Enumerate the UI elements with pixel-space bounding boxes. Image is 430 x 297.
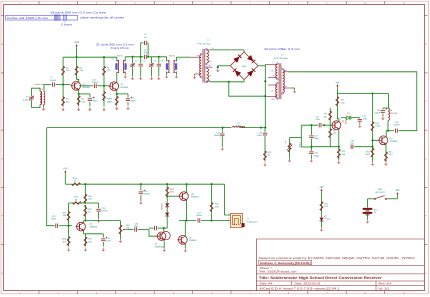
ground under T4 left	[166, 75, 168, 77]
wire T3 left top to rail	[116, 57, 118, 61]
diode D upper-left	[233, 56, 240, 63]
wire R1 top lead	[62, 57, 64, 65]
svg-text:33k: 33k	[63, 215, 66, 217]
wire mixer bottom	[243, 80, 245, 82]
svg-text:2N3904: 2N3904	[90, 226, 98, 228]
ground under C12	[359, 124, 361, 126]
wire Q1 emitter	[78, 90, 80, 94]
ground under L3	[43, 105, 45, 107]
svg-text:4: 4	[228, 218, 229, 220]
T2 left pins	[265, 63, 277, 65]
ground under C23	[98, 219, 100, 221]
svg-text:T3: T3	[111, 59, 113, 61]
resistor R24	[68, 226, 70, 236]
resistor R8 collector load	[336, 94, 338, 109]
wire divider to base	[68, 221, 70, 226]
ground under BT1	[367, 220, 369, 222]
svg-text:1: 1	[231, 64, 232, 66]
resistor R13 emitter	[338, 147, 340, 161]
ground under R8	[103, 107, 105, 109]
svg-text:100nF: 100nF	[50, 80, 57, 82]
wire rail corner to jack	[225, 184, 230, 215]
capacitor C10 coupling	[79, 80, 82, 82]
wire L6 down to buffer output	[387, 120, 389, 130]
svg-text:Size: A4: Size: A4	[260, 283, 274, 286]
ground under L5	[289, 154, 291, 159]
wire T1 to mixer top	[211, 49, 245, 51]
resistor R5	[78, 94, 80, 107]
capacitor C14 supply	[383, 107, 389, 109]
svg-text:100u: 100u	[131, 100, 137, 102]
svg-text:2: 2	[197, 72, 198, 74]
resistor R8 base divider	[103, 86, 105, 107]
svg-text:4a: 4a	[285, 86, 287, 88]
transistor Q3 oscillator	[332, 121, 341, 130]
junction Q2 base	[103, 85, 105, 87]
transistor Q9 PNP	[178, 235, 187, 244]
capacitor C11	[127, 94, 129, 98]
diode D upper-right	[247, 55, 254, 62]
svg-text:2 turns: 2 turns	[61, 22, 73, 26]
wire audio line	[47, 127, 231, 129]
svg-text:ferrite rod: ferrite rod	[35, 83, 45, 86]
wire mixer IF down	[264, 96, 266, 127]
svg-text:100nF: 100nF	[92, 82, 99, 84]
resistor R27	[85, 234, 87, 236]
svg-text:6b: 6b	[209, 65, 211, 67]
resistor R25	[84, 206, 86, 218]
wire AF rail	[81, 183, 225, 185]
ground under RV1	[120, 237, 122, 239]
svg-text:5-65p: 5-65p	[23, 99, 29, 101]
headphone jack J1	[230, 213, 242, 227]
svg-text:8 turns 0.5 mm: 8 turns 0.5 mm	[111, 46, 129, 50]
svg-text:L5: L5	[284, 142, 286, 144]
wire emitter tap to C17/C18 junction	[311, 146, 338, 148]
ground under T3	[124, 75, 126, 77]
junction R18/R25	[84, 205, 86, 207]
capacitor C1 top coupling loop	[141, 43, 144, 57]
wire buffer base node	[372, 140, 374, 146]
svg-text:+9V: +9V	[63, 168, 68, 170]
svg-text:0b: 0b	[209, 80, 211, 82]
ground under C6	[158, 76, 160, 78]
diode D lower-left	[235, 70, 242, 77]
svg-text:+9V: +9V	[319, 187, 324, 189]
svg-text:5.0uH: 5.0uH	[298, 143, 300, 148]
ground under C11	[127, 106, 129, 108]
ground under T4 right	[175, 75, 177, 77]
ground under R15	[385, 162, 387, 164]
svg-text:2: 2	[242, 82, 243, 84]
wire Q9 emitter ground	[184, 244, 186, 249]
svg-text:Id: 1/1: Id: 1/1	[379, 287, 391, 290]
svg-text:13k: 13k	[333, 133, 336, 135]
varactor D1	[341, 117, 346, 119]
wire L3 tap to C7	[43, 85, 45, 92]
junction on rail	[76, 56, 78, 58]
capacitor C6	[158, 57, 160, 63]
transistor Q1	[72, 81, 81, 90]
capacitor C13 shunt	[221, 128, 223, 133]
capacitor C8	[89, 94, 91, 98]
transistor Q2	[110, 82, 119, 91]
svg-text:2N3904: 2N3904	[120, 87, 128, 89]
wire T1 bottom to mixer loop	[211, 81, 245, 83]
wire audio to AF amplifier	[47, 128, 55, 226]
wire VFO rail	[337, 93, 388, 95]
junction Q8 base	[166, 194, 168, 197]
svg-text:0a: 0a	[285, 70, 287, 72]
diode D lower-right	[247, 70, 254, 77]
capacitor C25 coupling	[127, 229, 134, 231]
wire tank to base	[290, 137, 302, 139]
svg-text:+9V: +9V	[335, 82, 340, 84]
ferrite rod winding symbol L3 sketch	[54, 14, 56, 20]
resistor R17	[166, 184, 168, 188]
resistor R2	[76, 57, 78, 65]
svg-text:D1: D1	[347, 113, 349, 115]
ground under R11	[372, 162, 374, 164]
power +9V switch	[396, 195, 398, 198]
svg-text:T4: T4	[177, 59, 179, 61]
title block text: author	[259, 260, 312, 264]
VFO tank: variable inductor L5	[289, 138, 291, 141]
wire mixer loop to T2	[229, 82, 265, 96]
ground under R5	[78, 107, 80, 109]
ground under C4	[140, 76, 142, 78]
svg-text:1N4148: 1N4148	[160, 203, 162, 209]
svg-text:2: 2	[228, 223, 229, 225]
resistor R22	[68, 203, 70, 211]
ground under R7	[116, 106, 118, 108]
capacitor C15 feedback	[318, 123, 320, 127]
ground T2 right lower	[292, 87, 295, 89]
wire Q5 collector to volume pot	[85, 220, 120, 222]
capacitor C16 output coupling	[395, 129, 397, 133]
ground under R27	[85, 248, 87, 250]
wire battery to ground	[367, 214, 369, 220]
svg-text:SW_SPST: SW_SPST	[375, 192, 385, 194]
svg-text:10n: 10n	[350, 143, 353, 145]
svg-text:File: SSDCR.kicad_sch: File: SSDCR.kicad_sch	[260, 271, 298, 274]
junction Q5 base	[68, 225, 70, 227]
wire +12V rail	[63, 56, 117, 58]
svg-text:headphones: headphones	[247, 221, 258, 223]
svg-text:ferrite rod 1000 x 8 mm: ferrite rod 1000 x 8 mm	[7, 16, 48, 20]
ground under C24	[102, 248, 104, 250]
wire T1 mid pin ground	[217, 66, 219, 68]
wire T2 to VFO buffer (long right wire)	[288, 72, 417, 131]
svg-text:D3: D3	[327, 219, 329, 221]
wire Q4 emitter	[385, 144, 387, 151]
resistor R23 pullup	[211, 184, 213, 202]
svg-text:T37-6: T37-6	[117, 55, 123, 57]
svg-text:10 turns trifilar, 0.3 mm: 10 turns trifilar, 0.3 mm	[264, 47, 300, 51]
wire mixer left to ground node	[218, 65, 231, 67]
capacitor C14 shunt	[264, 128, 266, 132]
ground under Q7	[163, 248, 165, 250]
wire feedback/input net	[149, 230, 157, 237]
svg-text:100nF: 100nF	[214, 135, 221, 137]
ground under R24	[68, 248, 70, 250]
svg-text:470uF: 470uF	[144, 194, 151, 196]
transistor Q4 buffer	[379, 136, 388, 145]
inductor L6 choke	[388, 108, 390, 120]
trimmer capacitor C5	[151, 57, 153, 63]
wire Q8 collector to rail	[186, 184, 188, 192]
svg-text:15k: 15k	[324, 116, 327, 118]
svg-text:FT37-43: FT37-43	[390, 113, 397, 115]
svg-text:+12V: +12V	[74, 42, 80, 44]
capacitor C4	[140, 57, 142, 63]
capacitor C17 divider	[310, 125, 312, 135]
svg-text:47uF: 47uF	[106, 241, 112, 243]
junctions AF rail	[84, 183, 86, 185]
capacitor C23 decoupling	[85, 202, 98, 204]
T2 right pins	[283, 71, 288, 73]
svg-text:Rev: 8.4: Rev: 8.4	[379, 283, 393, 286]
resistor R10 bias upper	[372, 94, 374, 121]
capacitor C19 coupling to buffer	[339, 146, 350, 148]
svg-text:FT37-43 trifilar: FT37-43 trifilar	[274, 57, 288, 60]
LED D3	[321, 212, 323, 218]
svg-text:place windings far off center: place windings far off center	[81, 16, 125, 20]
wire T2 input vertical	[264, 64, 266, 96]
wire rail end down	[388, 94, 390, 108]
T1 right pins	[207, 49, 211, 51]
wire R8 to Q3	[337, 109, 339, 122]
ground T1 mid	[217, 68, 219, 70]
svg-text:NC2: NC2	[272, 99, 275, 101]
wire Q8 emitter to output node	[186, 200, 188, 221]
resistor R21 LED	[321, 201, 323, 212]
svg-text:100n: 100n	[257, 135, 263, 137]
capacitor C24 bypass	[102, 234, 104, 238]
wire pair collector	[163, 228, 165, 232]
resistor R12 shunt	[264, 150, 266, 162]
svg-text:680p: 680p	[314, 138, 320, 140]
trimmer capacitor C3	[132, 57, 134, 63]
ground under R12	[264, 163, 266, 165]
svg-text:7b: 7b	[273, 75, 275, 77]
title block	[256, 239, 424, 291]
wire Q5 emitter	[83, 230, 85, 233]
diode D3 bias	[166, 207, 168, 213]
transistor Q8 driver	[180, 192, 189, 201]
resistor R11 base lower bias	[329, 125, 331, 141]
wire Q3 base line	[322, 124, 331, 126]
variable capacitor C9	[31, 91, 33, 97]
svg-text:3: 3	[257, 64, 258, 66]
svg-text:C14: C14	[377, 110, 380, 112]
transistors Q6 Q7 output pair	[157, 232, 165, 240]
svg-text:100nF: 100nF	[393, 125, 400, 127]
resistor R4	[62, 85, 64, 96]
svg-text:2N3904A: 2N3904A	[155, 245, 165, 248]
svg-text:100u: 100u	[93, 100, 99, 102]
svg-text:100uF: 100uF	[196, 215, 203, 217]
wire output line	[179, 220, 196, 222]
ground under Q9	[184, 248, 186, 250]
resistor R6	[103, 57, 105, 65]
wire Q2 collector to T3	[116, 72, 118, 82]
svg-text:680p: 680p	[314, 155, 320, 157]
wire Q9 collector to output	[184, 221, 186, 236]
wire R2 to Q1 collector	[77, 76, 79, 82]
wire L3 bottom loop	[32, 105, 41, 108]
capacitor C27 output coupling	[197, 218, 199, 222]
resistor R18	[84, 184, 86, 193]
svg-text:FT37-43 trifilar: FT37-43 trifilar	[197, 42, 210, 45]
svg-text:Date: 2023-03-01: Date: 2023-03-01	[295, 283, 322, 286]
junction Q1 base	[62, 84, 64, 86]
svg-text:based on previous work by KY4A: based on previous work by KY4ANS, N2CQR,…	[259, 256, 415, 260]
svg-text:1a: 1a	[197, 55, 199, 57]
svg-text:+9V: +9V	[395, 190, 400, 192]
ground under C3	[132, 76, 134, 78]
wire T3 pins	[124, 57, 126, 62]
ground under C26	[140, 201, 142, 203]
ground under C18	[310, 159, 312, 161]
svg-text:100nF: 100nF	[101, 211, 108, 213]
diode D2 bias	[166, 196, 168, 203]
wire Q2 emitter	[116, 90, 118, 94]
resistor R15 emitter	[385, 151, 387, 162]
transistor Q5	[77, 222, 86, 231]
svg-text:T37-6: T37-6	[169, 55, 175, 57]
svg-text:Sheet: /: Sheet: /	[260, 267, 272, 270]
svg-text:Q3: Q3	[341, 120, 343, 123]
svg-text:1mH: 1mH	[236, 125, 241, 127]
svg-text:1: 1	[228, 213, 229, 215]
ground under R4	[62, 107, 64, 109]
svg-text:2N3904: 2N3904	[82, 87, 90, 89]
wire T4 pins	[166, 57, 168, 62]
svg-text:2N3904: 2N3904	[344, 118, 346, 124]
junctions bandpass	[132, 56, 134, 58]
wire bias to output pair	[149, 227, 153, 229]
resistor R16 series	[71, 183, 80, 185]
svg-text:+100uF: +100uF	[374, 113, 381, 115]
ground under C5	[151, 76, 153, 78]
resistor R9 base bias	[329, 94, 331, 112]
T1 left pins	[190, 56, 201, 58]
wire R25 to Q5 collector	[84, 217, 86, 220]
ground under T1 left	[194, 75, 196, 77]
resistor R1	[62, 65, 64, 76]
svg-text:KiCad E.D.A. kicad 7.0.5-7.0.: KiCad E.D.A. kicad 7.0.5-7.0.5~ubuntu22.…	[260, 287, 341, 290]
ground under R13	[338, 160, 340, 162]
svg-text:33k: 33k	[74, 199, 77, 201]
svg-text:2N3904: 2N3904	[390, 141, 398, 143]
potentiometer RV1 volume	[120, 222, 122, 237]
wire R1 to base	[62, 76, 64, 85]
capacitor C22 coupling	[55, 224, 57, 228]
wire pair emitter	[163, 240, 165, 248]
wire R6 to Q2 base	[103, 76, 105, 86]
note: ferrite rod box	[6, 15, 78, 20]
wire to Q8 base	[167, 195, 179, 197]
svg-text:100n: 100n	[362, 119, 368, 121]
ground under LED	[321, 228, 323, 230]
resistor R19 feedback horizontal	[69, 202, 86, 204]
svg-text:5: 5	[273, 62, 274, 64]
capacitor C12	[351, 117, 360, 119]
capacitor C26 input cap	[149, 227, 153, 229]
inductor L4 series	[232, 126, 245, 127]
capacitor C2 series	[143, 55, 145, 59]
capacitor C18 divider	[309, 151, 313, 153]
svg-text:2N3904: 2N3904	[191, 197, 199, 199]
wire bandpass top line	[125, 56, 143, 58]
junction output	[211, 219, 213, 221]
svg-text:19 turns 500 mm 0.3 mm Cu wire: 19 turns 500 mm 0.3 mm Cu wire	[50, 11, 107, 15]
resistor R7	[116, 94, 118, 96]
svg-text:Title: Soldersmoke High School: Title: Soldersmoke High School Direct Co…	[259, 276, 383, 280]
wire mixer right to T2	[258, 65, 265, 67]
svg-text:2N3906: 2N3906	[189, 240, 197, 242]
diode ring mixer DB1	[230, 52, 258, 80]
battery BT1	[367, 199, 369, 208]
svg-text:Andreas J. Gennoudy [DL1AJG]: Andreas J. Gennoudy [DL1AJG]	[260, 261, 311, 265]
wire Q3 emitter	[338, 129, 340, 147]
ground under C8	[89, 107, 91, 109]
ground under C14	[382, 116, 384, 118]
svg-text:4: 4	[247, 50, 248, 52]
ground under C13	[221, 147, 223, 149]
wire Q4 collector	[385, 131, 387, 137]
svg-text:10uF: 10uF	[51, 219, 57, 221]
capacitor C26 rail bypass	[140, 184, 142, 190]
resistor R11 bias lower	[372, 147, 374, 159]
svg-text:L6: L6	[390, 110, 392, 112]
